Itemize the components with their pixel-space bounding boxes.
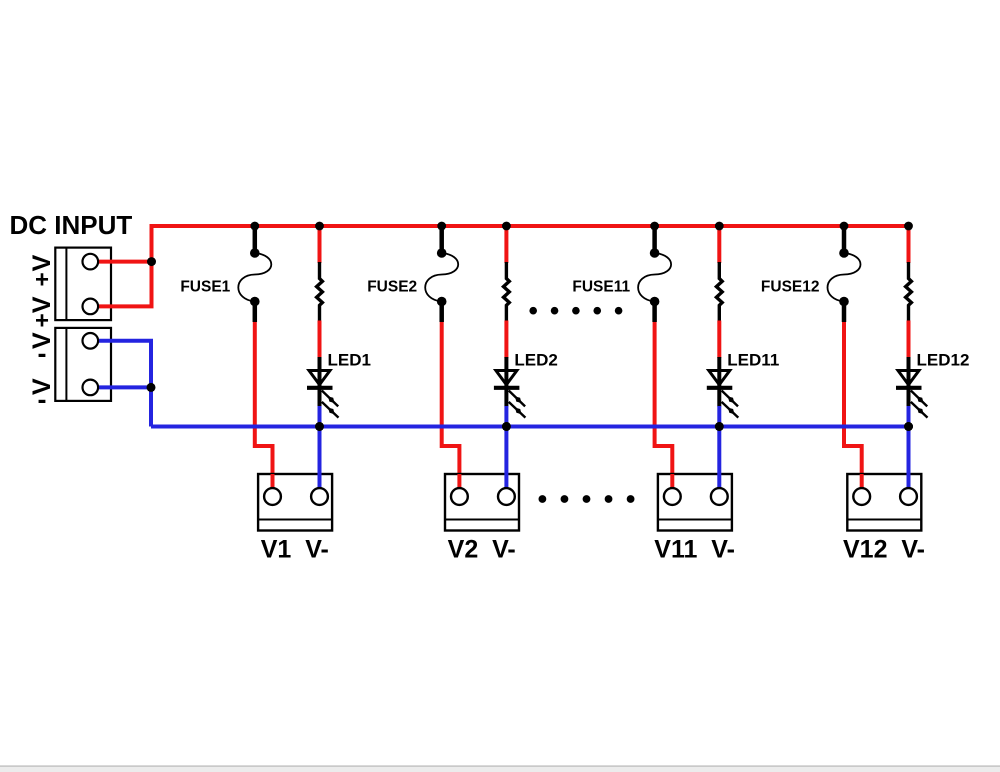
wire V- bus (blue, horizontal) bbox=[151, 425, 909, 429]
junction node LED11/V- bus (top) bbox=[715, 422, 724, 431]
svg-text:+: + bbox=[35, 266, 49, 293]
wire V- input pin2 bbox=[98, 385, 151, 389]
label pin V+ a bbox=[28, 254, 56, 293]
junction node V- input bbox=[147, 383, 156, 392]
terminal pin V12+ bbox=[853, 488, 870, 505]
terminal block J2 DC input V- bbox=[55, 328, 111, 401]
resistor R12 bbox=[906, 262, 912, 321]
junction node LED2/V- bus (top) bbox=[502, 422, 511, 431]
LED LED11 bbox=[707, 357, 739, 418]
junction node LED12/V- bus bbox=[904, 422, 913, 431]
wire fuse 12 bottom stub bbox=[842, 302, 847, 323]
label pin V- a bbox=[28, 332, 56, 369]
terminal block V11 output bbox=[658, 474, 732, 531]
wire fuse 1 bottom stub bbox=[253, 302, 258, 323]
wire resistor to LED (red) bbox=[907, 321, 911, 359]
junction node LED1/V- bus (top) bbox=[315, 422, 324, 431]
wire block V12 negative (blue) drop bbox=[907, 427, 911, 491]
svg-text:LED12: LED12 bbox=[917, 351, 970, 370]
terminal pin V- b bbox=[83, 380, 99, 396]
wire V+ bus (red, top) bbox=[150, 224, 154, 306]
wire resistor 12 top (red) bbox=[907, 226, 911, 263]
label pin V- b bbox=[28, 378, 56, 415]
terminal pin V- a bbox=[83, 333, 99, 349]
ellipsis continuation dots (bottom) bbox=[539, 495, 635, 503]
terminal block V12 output bbox=[847, 474, 921, 531]
junction node V+ input bbox=[147, 257, 156, 266]
junction node LED2/V- bus bbox=[502, 422, 511, 431]
junction node resistor1 top bbox=[315, 222, 324, 231]
wire LED cathode (blue) bbox=[504, 406, 508, 427]
terminal pin V1- bbox=[311, 488, 328, 505]
junction node resistor12 top bbox=[904, 222, 913, 231]
wire V+ input pin2 riser bbox=[98, 262, 152, 307]
LED LED12 bbox=[896, 357, 928, 418]
wire fuse 1 output (red) bbox=[255, 322, 273, 489]
wire block V11 negative (blue) drop bbox=[717, 427, 721, 491]
svg-text:V11 V-: V11 V- bbox=[654, 536, 735, 564]
terminal block V2 output bbox=[445, 474, 519, 531]
svg-text:FUSE1: FUSE1 bbox=[180, 279, 230, 296]
wire fuse 11 bottom stub bbox=[652, 302, 657, 323]
junction node resistor11 top bbox=[715, 222, 724, 231]
wire fuse 1 top stub bbox=[253, 226, 258, 253]
junction node resistor2 top bbox=[502, 222, 511, 231]
terminal pin V2- bbox=[498, 488, 515, 505]
terminal pin V11- bbox=[711, 488, 728, 505]
junction node fuse11 top bbox=[650, 222, 659, 231]
terminal pin V+ a bbox=[83, 254, 99, 270]
LED LED2 bbox=[494, 357, 526, 418]
terminal pin V+ b bbox=[83, 299, 99, 315]
wire block V2 positive (red) drop bbox=[457, 474, 461, 490]
label pin V+ b bbox=[28, 296, 56, 335]
svg-text:-: - bbox=[38, 385, 47, 415]
junction node LED1/V- bus bbox=[315, 422, 324, 431]
wire fuse 12 top stub bbox=[842, 226, 847, 253]
terminal block J1 DC input V+ bbox=[55, 248, 111, 321]
wire block V12 positive (red) drop bbox=[860, 474, 864, 490]
junction node fuse2 top bbox=[437, 222, 446, 231]
wire fuse 11 output (red) bbox=[655, 322, 673, 489]
svg-text:-: - bbox=[38, 339, 47, 369]
svg-text:LED11: LED11 bbox=[727, 351, 779, 370]
wire fuse 2 bottom stub bbox=[439, 302, 444, 323]
junction node fuse1 top bbox=[250, 222, 259, 231]
junction node fuse12 top bbox=[840, 222, 849, 231]
svg-text:FUSE11: FUSE11 bbox=[572, 279, 630, 296]
junction node LED12/V- bus (top) bbox=[904, 422, 913, 431]
LED LED1 bbox=[307, 357, 339, 418]
wire LED cathode (blue) bbox=[318, 406, 322, 427]
wire fuse 11 top stub bbox=[652, 226, 657, 253]
svg-text:V12 V-: V12 V- bbox=[843, 536, 925, 564]
junction node LED11/V- bus bbox=[715, 422, 724, 431]
wire block V11 positive (red) drop bbox=[670, 474, 674, 490]
svg-text:FUSE2: FUSE2 bbox=[367, 279, 417, 296]
wire block V1 negative (blue) drop bbox=[318, 427, 322, 491]
resistor R11 bbox=[716, 262, 722, 321]
wire LED cathode (blue) bbox=[907, 406, 911, 427]
resistor R1 bbox=[317, 262, 323, 321]
wire block V2 negative (blue) drop bbox=[504, 427, 508, 491]
fuse FUSE12 bbox=[828, 248, 861, 306]
wire block V1 positive (red) drop bbox=[271, 474, 275, 490]
terminal block V1 output bbox=[258, 474, 332, 531]
wire V- bus (blue, overdraw) bbox=[151, 425, 909, 429]
svg-text:V1 V-: V1 V- bbox=[261, 536, 329, 564]
fuse FUSE11 bbox=[638, 248, 671, 306]
svg-text:+: + bbox=[35, 308, 49, 335]
svg-text:DC INPUT: DC INPUT bbox=[10, 210, 133, 240]
wire resistor 2 top (red) bbox=[504, 226, 508, 263]
wire resistor to LED (red) bbox=[504, 321, 508, 359]
wire fuse 12 output (red) bbox=[844, 322, 862, 489]
fuse FUSE1 bbox=[238, 248, 271, 306]
terminal pin V11+ bbox=[664, 488, 681, 505]
wire V- input pin1 bbox=[98, 341, 151, 427]
ellipsis continuation dots (top) bbox=[529, 307, 622, 315]
svg-text:LED1: LED1 bbox=[328, 351, 371, 370]
terminal pin V1+ bbox=[264, 488, 281, 505]
wire resistor to LED (red) bbox=[717, 321, 721, 359]
wire V+ input pin1 to bus bbox=[98, 260, 152, 264]
wire resistor 11 top (red) bbox=[717, 226, 721, 263]
svg-text:FUSE12: FUSE12 bbox=[761, 279, 820, 296]
wire fuse 2 top stub bbox=[439, 226, 444, 253]
wire resistor to LED (red) bbox=[318, 321, 322, 359]
wire LED cathode (blue) bbox=[717, 406, 721, 427]
fuse FUSE2 bbox=[425, 248, 458, 306]
resistor R2 bbox=[504, 262, 510, 321]
terminal pin V2+ bbox=[451, 488, 468, 505]
wire fuse 2 output (red) bbox=[442, 322, 460, 489]
terminal pin V12- bbox=[900, 488, 917, 505]
svg-text:LED2: LED2 bbox=[514, 351, 557, 370]
svg-text:V2 V-: V2 V- bbox=[448, 536, 516, 564]
wire resistor 1 top (red) bbox=[318, 226, 322, 263]
